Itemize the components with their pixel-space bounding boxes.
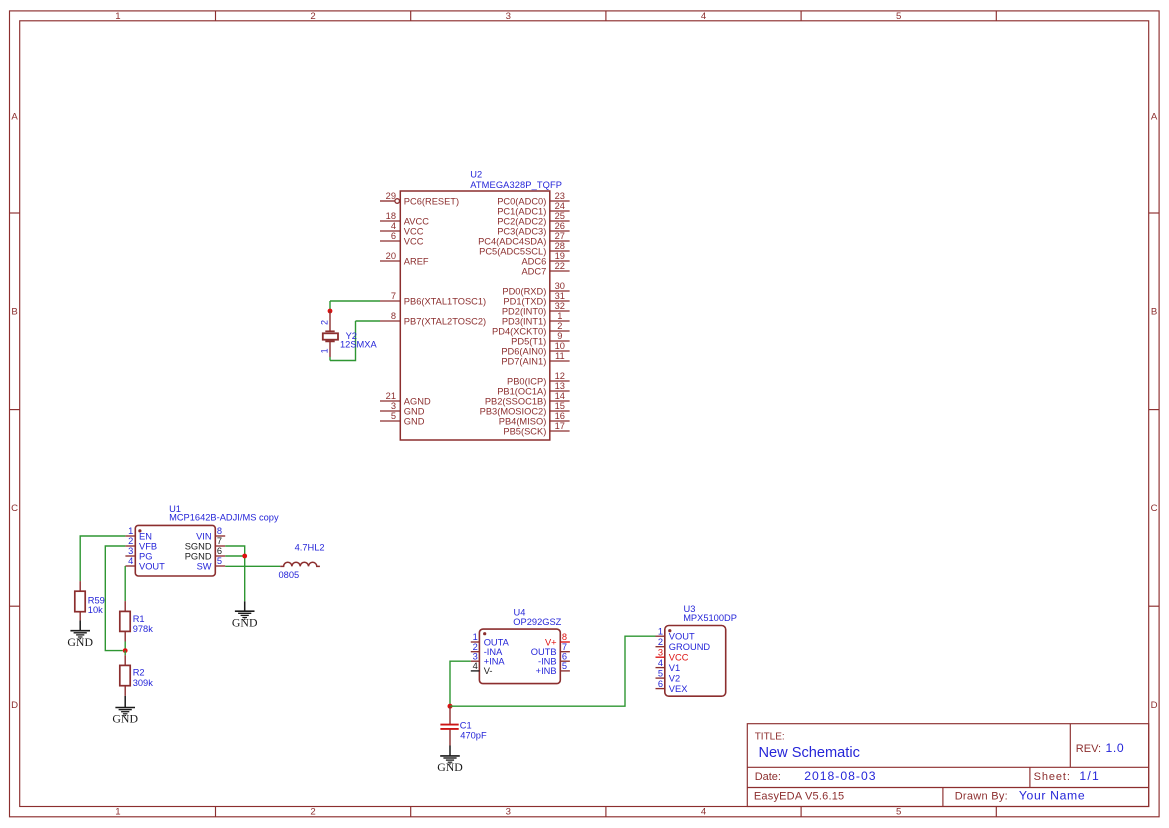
- svg-text:A: A: [1151, 112, 1158, 123]
- U2 pin 18 AVCC: [380, 220, 400, 222]
- svg-text:+INA: +INA: [484, 657, 506, 667]
- svg-text:PB1(OC1A): PB1(OC1A): [497, 386, 546, 396]
- svg-text:D: D: [1151, 700, 1158, 711]
- U4 pin 8 V+: [560, 641, 570, 643]
- svg-text:VIN: VIN: [196, 531, 212, 541]
- U3 pin 6 VEX: [656, 688, 665, 690]
- svg-text:309k: 309k: [133, 678, 154, 688]
- U2 pin 12 PB0(ICP): [550, 380, 570, 382]
- svg-text:VEX: VEX: [669, 684, 688, 694]
- U2 pin 29 PC6(RESET): [380, 200, 395, 202]
- junction R1-R2: [123, 648, 128, 653]
- svg-text:PC3(ADC3): PC3(ADC3): [497, 226, 546, 236]
- U1 pin 4 VOUT: [125, 565, 135, 567]
- U1 pin 5 SW: [215, 565, 225, 567]
- svg-text:OUTB: OUTB: [531, 647, 557, 657]
- U2 pin 8 PB7(XTAL2TOSC2): [380, 320, 400, 322]
- svg-text:5: 5: [391, 411, 396, 421]
- svg-text:5: 5: [896, 11, 901, 22]
- svg-text:22: 22: [555, 261, 565, 271]
- svg-text:Sheet:: Sheet:: [1034, 771, 1071, 783]
- svg-text:14: 14: [555, 391, 565, 401]
- svg-text:B: B: [1151, 307, 1157, 318]
- svg-text:17: 17: [555, 421, 565, 431]
- svg-text:PC5(ADC5SCL): PC5(ADC5SCL): [479, 246, 546, 256]
- svg-text:21: 21: [386, 391, 396, 401]
- title block: [747, 724, 1148, 807]
- svg-text:3: 3: [128, 546, 133, 556]
- U3 pin 5 V2: [656, 677, 665, 679]
- svg-text:12SMXA: 12SMXA: [340, 340, 377, 350]
- svg-text:29: 29: [386, 191, 396, 201]
- svg-text:30: 30: [555, 281, 565, 291]
- svg-text:15: 15: [555, 401, 565, 411]
- svg-text:PD6(AIN0): PD6(AIN0): [501, 346, 546, 356]
- svg-text:4: 4: [473, 661, 478, 671]
- svg-text:PD3(INT1): PD3(INT1): [502, 316, 546, 326]
- svg-text:C: C: [1151, 503, 1158, 514]
- U3 pin 4 V1: [656, 667, 665, 669]
- U2 pin 32 PD2(INT0): [550, 310, 570, 312]
- svg-text:PGND: PGND: [185, 551, 212, 561]
- U2 pin 4 VCC: [380, 230, 400, 232]
- inductor L2 4.7H 0805: [279, 542, 325, 579]
- U2 pin 16 PB4(MISO): [550, 420, 570, 422]
- svg-text:4: 4: [128, 556, 133, 566]
- svg-text:25: 25: [555, 211, 565, 221]
- svg-text:31: 31: [555, 291, 565, 301]
- svg-text:3: 3: [391, 401, 396, 411]
- svg-text:-INA: -INA: [484, 647, 503, 657]
- svg-text:MPX5100DP: MPX5100DP: [683, 613, 737, 623]
- wire PGND: [225, 555, 245, 557]
- U2 pin 3 GND: [380, 410, 400, 412]
- svg-text:6: 6: [391, 231, 396, 241]
- svg-text:VOUT: VOUT: [139, 561, 165, 571]
- svg-text:B: B: [11, 307, 17, 318]
- svg-text:C1: C1: [460, 721, 472, 731]
- svg-text:PC6(RESET): PC6(RESET): [404, 196, 459, 206]
- svg-text:5: 5: [562, 661, 567, 671]
- svg-text:26: 26: [555, 221, 565, 231]
- svg-text:6: 6: [562, 651, 567, 661]
- svg-text:3: 3: [506, 807, 511, 818]
- svg-text:6: 6: [217, 546, 222, 556]
- svg-text:MCP1642B-ADJI/MS copy: MCP1642B-ADJI/MS copy: [169, 513, 279, 523]
- U2 pin 26 PC3(ADC3): [550, 230, 570, 232]
- svg-text:GND: GND: [404, 416, 425, 426]
- svg-text:V-: V-: [484, 666, 493, 676]
- svg-text:3: 3: [473, 651, 478, 661]
- svg-text:9: 9: [557, 331, 562, 341]
- svg-text:AVCC: AVCC: [404, 216, 429, 226]
- svg-text:AGND: AGND: [404, 396, 431, 406]
- wire SW to L2: [225, 565, 280, 567]
- U2 pin 7 PB6(XTAL1TOSC1): [380, 300, 400, 302]
- svg-text:VFB: VFB: [139, 541, 157, 551]
- junction crystal top: [328, 309, 333, 314]
- U3 pin 3 VCC: [656, 656, 665, 658]
- crystal Y2 12SMXA: [320, 311, 378, 357]
- svg-text:GND: GND: [232, 615, 258, 629]
- svg-text:1: 1: [473, 632, 478, 642]
- resistor R2: [120, 655, 153, 696]
- svg-text:4: 4: [701, 807, 707, 818]
- U2 pin 1 PD3(INT1): [550, 320, 570, 322]
- svg-text:19: 19: [555, 251, 565, 261]
- U2 pin 20 AREF: [380, 260, 400, 262]
- resistor R1: [120, 601, 153, 641]
- svg-text:2: 2: [128, 536, 133, 546]
- svg-text:GND: GND: [404, 406, 425, 416]
- U4 pin 6 -INB: [560, 660, 570, 662]
- U4 pin1 dot: [483, 632, 486, 635]
- svg-text:PD7(AIN1): PD7(AIN1): [501, 356, 546, 366]
- wire PB7 to crystal: [356, 320, 381, 322]
- wire EN to R59: [80, 536, 125, 581]
- svg-text:1: 1: [320, 348, 330, 353]
- svg-text:AREF: AREF: [404, 256, 429, 266]
- ground GND below C1: [449, 746, 451, 756]
- svg-text:16: 16: [555, 411, 565, 421]
- svg-text:Date:: Date:: [755, 771, 781, 783]
- svg-text:3: 3: [658, 647, 663, 657]
- wire junction to U3 VOUT: [450, 636, 656, 706]
- svg-text:GND: GND: [112, 712, 138, 726]
- sensor U3 MPX5100DP: [656, 604, 737, 696]
- svg-text:5: 5: [658, 668, 663, 678]
- svg-text:1: 1: [115, 807, 120, 818]
- junction PGND: [242, 554, 247, 559]
- resistor R59: [75, 581, 105, 620]
- svg-text:V1: V1: [669, 663, 680, 673]
- svg-text:5: 5: [217, 556, 222, 566]
- svg-text:PC4(ADC4SDA): PC4(ADC4SDA): [478, 236, 546, 246]
- ground GND below U1: [244, 601, 246, 611]
- svg-text:-INB: -INB: [538, 657, 557, 667]
- U1 pin 1 EN: [125, 535, 135, 537]
- svg-text:SGND: SGND: [185, 541, 212, 551]
- svg-text:SW: SW: [197, 561, 212, 571]
- svg-text:GROUND: GROUND: [669, 642, 711, 652]
- U2 pin 30 PD0(RXD): [550, 290, 570, 292]
- wire PB6 to crystal: [330, 300, 380, 302]
- svg-text:1.0: 1.0: [1106, 741, 1125, 755]
- svg-text:OP292GSZ: OP292GSZ: [513, 617, 561, 627]
- U2 pin 17 PB5(SCK): [550, 430, 570, 432]
- svg-text:OUTA: OUTA: [484, 637, 510, 647]
- ground GND below R59: [79, 620, 81, 630]
- svg-text:GND: GND: [437, 760, 463, 774]
- svg-text:8: 8: [562, 632, 567, 642]
- svg-text:20: 20: [386, 251, 396, 261]
- U4 pin 5 +INB: [560, 670, 570, 672]
- svg-text:New Schematic: New Schematic: [759, 745, 860, 761]
- svg-text:3: 3: [506, 11, 511, 22]
- svg-text:+INB: +INB: [536, 666, 557, 676]
- svg-text:470pF: 470pF: [460, 731, 487, 741]
- U2 pin 10 PD6(AIN0): [550, 350, 570, 352]
- junction C1: [448, 704, 453, 709]
- svg-text:Your Name: Your Name: [1019, 789, 1085, 803]
- svg-text:2018-08-03: 2018-08-03: [804, 769, 876, 783]
- U2 pin 15 PB3(MOSIOC2): [550, 410, 570, 412]
- svg-text:PB3(MOSIOC2): PB3(MOSIOC2): [480, 406, 547, 416]
- U1 pin 6 PGND: [215, 555, 225, 557]
- U2 pin 19 ADC6: [550, 260, 570, 262]
- svg-text:PD2(INT0): PD2(INT0): [502, 306, 546, 316]
- svg-text:PB0(ICP): PB0(ICP): [507, 376, 546, 386]
- svg-text:U2: U2: [470, 170, 482, 180]
- svg-text:8: 8: [391, 311, 396, 321]
- svg-text:C: C: [11, 503, 18, 514]
- U2 pin 21 AGND: [380, 400, 400, 402]
- svg-text:1: 1: [128, 526, 133, 536]
- wire +INA down to C1 junction: [450, 661, 471, 706]
- svg-text:7: 7: [562, 642, 567, 652]
- svg-text:978k: 978k: [133, 624, 154, 634]
- U2 pin 28 PC5(ADC5SCL): [550, 250, 570, 252]
- svg-text:PD0(RXD): PD0(RXD): [502, 286, 546, 296]
- svg-text:12: 12: [555, 371, 565, 381]
- U2 pin 5 GND: [380, 420, 400, 422]
- U4 pin 7 OUTB: [560, 651, 570, 653]
- wire SGND down: [225, 546, 245, 601]
- U2 pin 22 ADC7: [550, 270, 570, 272]
- svg-text:V+: V+: [545, 637, 557, 647]
- svg-text:2: 2: [557, 321, 562, 331]
- svg-text:PD5(T1): PD5(T1): [511, 336, 546, 346]
- U4 pin 4 V-: [471, 670, 480, 672]
- op-amp U4 OP292GSZ: [471, 608, 570, 684]
- U2 pin 23 PC0(ADC0): [550, 200, 570, 202]
- svg-text:1: 1: [115, 11, 120, 22]
- svg-text:A: A: [11, 112, 18, 123]
- svg-text:10: 10: [555, 341, 565, 351]
- svg-text:1/1: 1/1: [1079, 769, 1100, 783]
- svg-text:REV:: REV:: [1076, 743, 1101, 755]
- U2 pin 6 VCC: [380, 240, 400, 242]
- svg-text:V2: V2: [669, 673, 680, 683]
- U2 pin 11 PD7(AIN1): [550, 360, 570, 362]
- U2 pin 25 PC2(ADC2): [550, 220, 570, 222]
- svg-text:2: 2: [310, 11, 315, 22]
- svg-text:Drawn By:: Drawn By:: [955, 791, 1008, 803]
- IC U2 ATMEGA328P_TQFP: [380, 170, 570, 440]
- svg-text:2: 2: [310, 807, 315, 818]
- svg-text:R1: R1: [133, 614, 145, 624]
- ground GND below R2: [124, 696, 126, 708]
- svg-text:PB2(SSOC1B): PB2(SSOC1B): [485, 396, 546, 406]
- U1 pin1 dot: [138, 529, 141, 532]
- svg-text:1: 1: [557, 311, 562, 321]
- U1 pin 2 VFB: [125, 545, 135, 547]
- U2 pin 13 PB1(OC1A): [550, 390, 570, 392]
- U2 pin 14 PB2(SSOC1B): [550, 400, 570, 402]
- svg-text:24: 24: [555, 201, 565, 211]
- svg-text:7: 7: [217, 536, 222, 546]
- svg-text:D: D: [11, 700, 18, 711]
- svg-text:PC0(ADC0): PC0(ADC0): [497, 196, 546, 206]
- svg-text:4: 4: [701, 11, 707, 22]
- svg-text:PB7(XTAL2TOSC2): PB7(XTAL2TOSC2): [404, 316, 486, 326]
- svg-text:0805: 0805: [279, 570, 300, 580]
- wire VFB to R1-R2 junction: [105, 546, 125, 651]
- svg-text:PG: PG: [139, 551, 152, 561]
- svg-text:4: 4: [391, 221, 396, 231]
- U1 pin 3 PG: [125, 555, 135, 557]
- U3 pin1 dot: [668, 629, 671, 632]
- svg-text:6: 6: [658, 679, 663, 689]
- svg-text:ATMEGA328P_TQFP: ATMEGA328P_TQFP: [470, 180, 562, 190]
- svg-text:PD1(TXD): PD1(TXD): [503, 296, 546, 306]
- svg-text:VCC: VCC: [404, 236, 424, 246]
- svg-text:GND: GND: [67, 635, 93, 649]
- svg-text:5: 5: [896, 807, 901, 818]
- svg-text:10k: 10k: [88, 605, 103, 615]
- svg-text:EN: EN: [139, 531, 152, 541]
- svg-text:11: 11: [555, 351, 565, 361]
- IC U1 MCP1642B-ADJI/MS copy: [125, 504, 279, 576]
- svg-text:R2: R2: [133, 668, 145, 678]
- svg-text:32: 32: [555, 301, 565, 311]
- svg-text:1: 1: [658, 626, 663, 636]
- svg-text:VCC: VCC: [669, 653, 689, 663]
- svg-text:PB6(XTAL1TOSC1): PB6(XTAL1TOSC1): [404, 296, 486, 306]
- svg-text:2: 2: [658, 637, 663, 647]
- U4 pin 2 -INA: [471, 651, 480, 653]
- U2 pin 31 PD1(TXD): [550, 300, 570, 302]
- svg-text:PB4(MISO): PB4(MISO): [499, 416, 547, 426]
- svg-text:2: 2: [320, 320, 330, 325]
- U4 pin 3 +INA: [471, 660, 480, 662]
- svg-text:VCC: VCC: [404, 226, 424, 236]
- U3 pin 1 VOUT: [656, 635, 665, 637]
- wire VOUT to R1: [124, 566, 126, 601]
- svg-text:PD4(XCKT0): PD4(XCKT0): [492, 326, 546, 336]
- U3 pin 2 GROUND: [656, 646, 665, 648]
- U2 pin 27 PC4(ADC4SDA): [550, 240, 570, 242]
- svg-text:27: 27: [555, 231, 565, 241]
- wire R1 to junction: [124, 642, 126, 651]
- U1 pin 7 SGND: [215, 545, 225, 547]
- svg-text:ADC7: ADC7: [521, 266, 546, 276]
- svg-text:28: 28: [555, 241, 565, 251]
- svg-text:EasyEDA V5.6.15: EasyEDA V5.6.15: [754, 791, 844, 803]
- svg-text:VOUT: VOUT: [669, 632, 695, 642]
- svg-text:8: 8: [217, 526, 222, 536]
- capacitor C1 470pF: [440, 706, 487, 745]
- svg-text:18: 18: [386, 211, 396, 221]
- U2 pin 9 PD5(T1): [550, 340, 570, 342]
- wire junction to R2: [124, 651, 126, 656]
- svg-text:4.7HL2: 4.7HL2: [295, 542, 325, 552]
- svg-text:PC2(ADC2): PC2(ADC2): [497, 216, 546, 226]
- U2 pin 24 PC1(ADC1): [550, 210, 570, 212]
- U4 pin 1 OUTA: [471, 641, 480, 643]
- svg-text:7: 7: [391, 291, 396, 301]
- svg-text:PC1(ADC1): PC1(ADC1): [497, 206, 546, 216]
- svg-text:TITLE:: TITLE:: [755, 732, 785, 743]
- svg-text:13: 13: [555, 381, 565, 391]
- U2 pin 2 PD4(XCKT0): [550, 330, 570, 332]
- svg-text:4: 4: [658, 658, 663, 668]
- svg-text:ADC6: ADC6: [521, 256, 546, 266]
- svg-text:PB5(SCK): PB5(SCK): [503, 426, 546, 436]
- svg-text:2: 2: [473, 642, 478, 652]
- svg-text:23: 23: [555, 191, 565, 201]
- U1 pin 8 VIN: [215, 535, 225, 537]
